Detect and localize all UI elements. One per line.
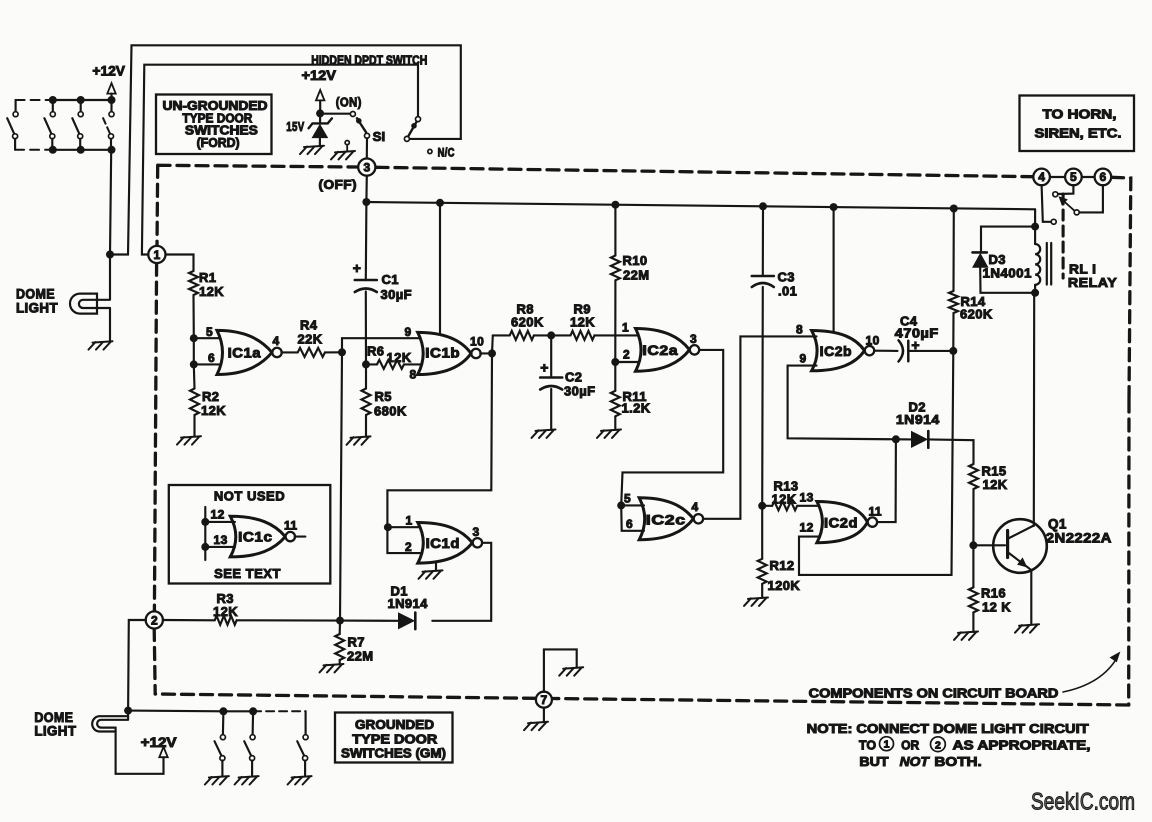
- svg-text:TO HORN,: TO HORN,: [1043, 107, 1117, 122]
- svg-text:IC2c: IC2c: [646, 513, 686, 528]
- wire - rail branch down to IC1b top: [439, 203, 441, 333]
- N/C contact: [428, 149, 432, 153]
- wire - to S1 ON contact: [320, 113, 351, 115]
- junction - R13/R12/C3: [758, 502, 766, 510]
- relay contact upper (node 5 wire): [1058, 185, 1073, 194]
- svg-text:SWITCHES (GM): SWITCHES (GM): [341, 747, 446, 761]
- wire - C4 node down to IC2d pin 12: [799, 351, 953, 575]
- svg-text:C3: C3: [778, 270, 795, 285]
- ground - below top dome light: [89, 341, 113, 349]
- svg-text:9: 9: [800, 352, 807, 366]
- ground - below R2: [177, 436, 201, 444]
- svg-text:+: +: [353, 260, 361, 276]
- door switch SW-C: [77, 96, 85, 104]
- svg-text:SIREN, ETC.: SIREN, ETC.: [1035, 126, 1122, 141]
- svg-text:10: 10: [470, 335, 484, 349]
- svg-text:2: 2: [935, 739, 941, 751]
- wire - IC1b out down to IC1d inputs: [387, 353, 492, 553]
- junction - R8/R9/C2: [547, 331, 555, 339]
- junction - IC1c pin 12: [201, 518, 209, 526]
- ground - below node 7: [524, 722, 548, 730]
- junction - IC2c pin 5: [617, 501, 625, 509]
- wire - between node 5 and 6: [1082, 176, 1095, 178]
- wire - dome light node to GM switches: [128, 710, 223, 713]
- NOR gate IC1c: [230, 516, 285, 557]
- svg-text:5: 5: [206, 325, 213, 339]
- junction - C1/R6/R5: [362, 360, 370, 368]
- svg-text:(OFF): (OFF): [319, 177, 358, 192]
- svg-text:13: 13: [800, 491, 814, 505]
- S1 common contact: [365, 133, 370, 138]
- wire - node 2 to R3: [163, 619, 215, 621]
- capacitor C2 30uF: [550, 335, 552, 377]
- node 6 circle: [1095, 169, 1112, 186]
- svg-text:12 K: 12 K: [982, 600, 1011, 615]
- svg-text:22K: 22K: [298, 332, 323, 347]
- svg-text:NOT USED: NOT USED: [214, 489, 285, 504]
- svg-text:22M: 22M: [623, 268, 650, 283]
- svg-text:IC2d: IC2d: [824, 516, 858, 531]
- svg-text:+12V: +12V: [141, 735, 177, 750]
- zener diode D4 15V: [319, 113, 321, 122]
- wire - IC1c output stub: [295, 536, 306, 538]
- svg-text:+12V: +12V: [302, 68, 336, 83]
- ground - below C2: [532, 430, 556, 438]
- wire - R4 to junction: [325, 351, 342, 353]
- svg-text:OR: OR: [901, 737, 920, 752]
- svg-text:2: 2: [151, 613, 158, 627]
- ground - below zener: [300, 146, 324, 154]
- resistor R1 12K: [189, 271, 198, 295]
- svg-text:C1: C1: [382, 272, 399, 287]
- svg-text:NOTE: CONNECT DOME LIGHT CIRCU: NOTE: CONNECT DOME LIGHT CIRCUIT: [807, 721, 1089, 736]
- svg-text:Q1: Q1: [1048, 517, 1067, 532]
- wire - IC2a output feedback to IC2c pin5: [621, 350, 723, 506]
- svg-text:30µF: 30µF: [564, 384, 596, 399]
- resistor R6 12K: [366, 363, 377, 365]
- diode D2 1N914: [896, 438, 912, 440]
- capacitor C3 .01: [762, 206, 764, 276]
- resistor R3 12K: [215, 616, 237, 625]
- svg-text:6: 6: [208, 351, 215, 365]
- junction - zener/S1 node: [316, 109, 324, 117]
- +12V supply arrow (top-left): [107, 83, 115, 93]
- svg-text:R2: R2: [202, 389, 219, 404]
- wire - Ford switch bottom rail: [53, 149, 112, 151]
- wire - dashed to third GM switch: [253, 710, 306, 712]
- svg-text:12: 12: [211, 508, 225, 522]
- door switch SW-A: [15, 100, 17, 112]
- svg-text:12K: 12K: [983, 477, 1008, 492]
- ground - below R12: [744, 598, 768, 606]
- resistor R10 22M: [614, 205, 616, 256]
- svg-text:3: 3: [473, 525, 480, 539]
- svg-text:1: 1: [154, 248, 161, 262]
- wire - IC2c input tie: [621, 505, 644, 530]
- svg-text:TYPE DOOR: TYPE DOOR: [352, 733, 437, 747]
- resistor R5 680K: [365, 364, 367, 388]
- resistor R9 12K: [551, 334, 570, 336]
- GM door switch 3: [305, 711, 307, 735]
- svg-text:15V: 15V: [286, 120, 304, 134]
- svg-text:R12: R12: [770, 558, 795, 573]
- svg-text:1.2K: 1.2K: [622, 401, 651, 416]
- svg-text:12K: 12K: [570, 315, 595, 330]
- wire - door switch column down to dome light: [110, 150, 111, 255]
- capacitor C4 470uF: [899, 340, 904, 361]
- relay core bars: [1046, 243, 1048, 285]
- svg-text:LIGHT: LIGHT: [16, 301, 58, 316]
- svg-text:6: 6: [1100, 170, 1107, 184]
- svg-text:1N4001: 1N4001: [983, 266, 1032, 281]
- junction - node 1 wire to door-switch column: [106, 251, 114, 259]
- wire - inner loop node 1 to DPDT upper contact: [142, 65, 418, 255]
- svg-text:IC2b: IC2b: [820, 344, 852, 359]
- junction - rail/R14: [950, 205, 958, 213]
- DPDT switch pole 2 lower contact: [404, 136, 409, 141]
- svg-text:6: 6: [626, 517, 633, 531]
- wire - IC1a output to R4: [282, 351, 298, 353]
- node 5 circle: [1065, 169, 1082, 186]
- svg-text:HIDDEN DPDT SWITCH: HIDDEN DPDT SWITCH: [311, 54, 427, 68]
- ground - below R5: [347, 436, 371, 444]
- svg-text:LIGHT: LIGHT: [34, 724, 76, 739]
- wire - IC1d pin1 into gate: [388, 526, 423, 528]
- ground - below R7: [320, 664, 344, 672]
- GM door switch 1: [219, 707, 227, 715]
- ground - right of node 7: [559, 667, 583, 675]
- wire - C4 to R14 junction: [908, 350, 953, 352]
- NOR gate IC2a: [636, 329, 690, 372]
- relay armature blade with arrow: [1063, 201, 1074, 211]
- svg-text:5: 5: [1070, 170, 1077, 184]
- svg-text:SEE TEXT: SEE TEXT: [214, 566, 281, 581]
- dashed circuit-board border left edge: [155, 165, 159, 246]
- node 2 circle: [146, 611, 163, 628]
- svg-text:+: +: [540, 360, 548, 376]
- svg-text:R4: R4: [300, 318, 318, 333]
- wire - pin2 into gate: [615, 361, 640, 363]
- svg-text:1: 1: [622, 321, 629, 335]
- wire - R3 to R7 junction: [237, 619, 340, 621]
- dashed circuit-board border right edge: [1112, 177, 1131, 400]
- svg-text:1N914: 1N914: [896, 412, 940, 427]
- resistor R12 120K: [761, 506, 763, 559]
- svg-text:1N914: 1N914: [388, 596, 429, 611]
- wire - Ford switch top rail (dashed part): [16, 99, 53, 101]
- svg-text:11: 11: [284, 519, 298, 533]
- svg-text:8: 8: [410, 368, 417, 382]
- door switch SW-D (dashed blade): [108, 96, 116, 104]
- svg-text:120K: 120K: [768, 578, 801, 593]
- junction - IC1c pin 13: [201, 543, 209, 551]
- callout box NOT USED / SEE TEXT: [169, 485, 330, 584]
- wire - bottom lamp to +12V arrow: [116, 728, 164, 774]
- junction - relay coil top: [1031, 223, 1039, 231]
- NOR gate IC2c: [639, 498, 693, 540]
- svg-text:12K: 12K: [213, 604, 238, 619]
- NOR gate IC2d: [817, 502, 868, 543]
- node 3 circle: [358, 159, 375, 176]
- svg-text:C2: C2: [565, 370, 582, 385]
- Q1 collector: [1008, 526, 1034, 539]
- GM door switch 2: [249, 707, 257, 715]
- wire - R1 to IC1a pin 5: [192, 295, 194, 338]
- wire - Ford switch top rail: [53, 99, 112, 101]
- dashed divider between relay coil and contacts: [1062, 194, 1065, 278]
- wire - node 7 lower ground stub: [543, 708, 545, 723]
- junction - IC1d pin 1: [384, 523, 392, 531]
- junction - Q1 base node: [969, 541, 977, 549]
- resistor R2 12K: [193, 364, 196, 388]
- junction - C4/R14/IC2d pin12 line: [949, 347, 957, 355]
- svg-text:IC1b: IC1b: [425, 346, 460, 361]
- wire - pin5 into gate: [621, 504, 644, 506]
- svg-text:680K: 680K: [374, 404, 407, 419]
- svg-text:.01: .01: [778, 284, 797, 299]
- wire - outer loop to DPDT lower contact: [110, 45, 461, 254]
- ground - below R16: [954, 632, 978, 640]
- Q1 emitter with arrow: [1008, 553, 1031, 570]
- transistor Q1 2N2222A: [993, 519, 1047, 573]
- svg-text:22M: 22M: [347, 649, 374, 664]
- dome light lamp (top): [70, 294, 97, 314]
- svg-text:COMPONENTS ON CIRCUIT BOARD: COMPONENTS ON CIRCUIT BOARD: [809, 686, 1059, 701]
- curved arrow to board edge: [1063, 657, 1118, 692]
- node 1 circle: [148, 246, 165, 263]
- wire - rail branch down to IC2b top: [833, 207, 835, 331]
- svg-text:2: 2: [623, 348, 630, 362]
- NOR gate IC1d: [418, 523, 473, 564]
- node 7 circle: [536, 692, 552, 708]
- resistor R8 620K: [493, 334, 510, 336]
- junction - IC1a pin6: [190, 360, 198, 368]
- wire - R6 to IC1b pin 8: [404, 363, 423, 365]
- S1 blade: [357, 118, 366, 132]
- resistor R14 620K: [952, 209, 954, 292]
- node 4 circle: [1033, 169, 1050, 186]
- wire - IC2d output up to D2 anode: [877, 439, 896, 522]
- diode D3 1N4001 loop wires: [981, 227, 1035, 252]
- resistor R16 12K: [972, 545, 974, 587]
- svg-text:IC1d: IC1d: [426, 536, 460, 551]
- junction - IC2a pin 2: [611, 358, 619, 366]
- svg-text:620K: 620K: [960, 307, 993, 322]
- ground - below Q1 emitter: [1015, 624, 1039, 632]
- svg-text:9: 9: [405, 325, 412, 339]
- dome light lamp (bottom): [127, 711, 129, 720]
- wire - IC1b output to junction: [480, 352, 492, 354]
- resistor R15 12K: [969, 464, 978, 489]
- svg-text:IC1a: IC1a: [228, 346, 261, 361]
- wire - up to R8: [491, 335, 494, 353]
- svg-text:4: 4: [273, 334, 280, 348]
- svg-text:DOME: DOME: [16, 287, 55, 302]
- diode D3 1N4001: [973, 251, 987, 254]
- svg-text:IC2a: IC2a: [642, 343, 678, 358]
- wire - node 7 upper ground stub: [544, 649, 577, 691]
- dashed circuit-board border top edge: [158, 165, 358, 167]
- svg-text:4: 4: [1038, 170, 1045, 184]
- svg-text:3: 3: [690, 332, 697, 346]
- wire - pin6 into gate: [194, 363, 222, 365]
- svg-text:TO: TO: [859, 737, 876, 752]
- svg-text:(ON): (ON): [336, 95, 362, 110]
- wire - junction to D1: [340, 620, 399, 622]
- svg-text:R16: R16: [981, 586, 1006, 601]
- wire - R8 to C2 junction: [534, 334, 551, 336]
- svg-text:NOT: NOT: [900, 754, 930, 769]
- NOR gate IC1b: [418, 332, 471, 374]
- wire - IC1a input tie: [193, 338, 195, 364]
- junction - rail/C1: [362, 198, 370, 206]
- NOR gate IC2b: [812, 331, 865, 371]
- DPDT switch pole 2 blade: [408, 122, 416, 136]
- svg-text:(FORD): (FORD): [197, 136, 240, 150]
- svg-text:SI: SI: [373, 129, 386, 144]
- wire - main top rail: [366, 202, 1035, 209]
- door switch SW-B: [49, 96, 57, 104]
- wire - IC1c input tie line: [204, 507, 206, 560]
- S1 ON contact: [350, 112, 355, 117]
- callout box GROUNDED TYPE DOOR SWITCHES (GM): [335, 713, 453, 763]
- svg-text:3: 3: [363, 160, 370, 174]
- svg-text:R10: R10: [623, 253, 648, 268]
- svg-text:10: 10: [866, 334, 880, 348]
- svg-text:7: 7: [541, 693, 548, 707]
- capacitor C1 30uF: [365, 202, 368, 280]
- wire - pin12 into gate: [205, 521, 235, 523]
- wire - node 1 to R1: [166, 255, 194, 272]
- wire - between node 4 and 5: [1050, 176, 1065, 178]
- svg-text:13: 13: [214, 533, 228, 547]
- junction - relay coil bottom: [1031, 289, 1039, 297]
- diode D1 1N914: [399, 613, 415, 629]
- wire - Ford switch bottom rail (dashed part): [15, 149, 53, 151]
- wire - R15 to Q1 base node: [972, 489, 974, 545]
- junction - IC1b out: [488, 349, 496, 357]
- junction - bottom dome light node: [124, 707, 132, 715]
- junction - rail/IC2b top: [830, 203, 838, 211]
- svg-text:2N2222A: 2N2222A: [1046, 531, 1112, 546]
- svg-text:R5: R5: [375, 389, 392, 404]
- wire - pin5 into gate: [194, 337, 222, 339]
- ground - below R11: [597, 430, 621, 438]
- wire - dome light to ground: [109, 308, 111, 342]
- svg-text:30µF: 30µF: [381, 287, 413, 302]
- svg-text:2: 2: [405, 540, 412, 554]
- junction - R3/R7/D1: [336, 617, 344, 625]
- dashed circuit-board border bottom edge: [552, 699, 1129, 706]
- wire - pin13 into gate: [205, 546, 235, 548]
- wire - D2 cathode to R15: [928, 439, 973, 464]
- junction - rail/IC1b top: [436, 199, 444, 207]
- svg-text:BOTH.: BOTH.: [934, 754, 981, 769]
- svg-text:1: 1: [406, 514, 413, 528]
- wire - node 2 loop to bottom dome light: [128, 620, 146, 711]
- junction - IC1a pin5: [190, 334, 198, 342]
- svg-text:470µF: 470µF: [895, 326, 939, 341]
- svg-text:R7: R7: [348, 635, 365, 650]
- junction - D2 anode / IC2d out: [892, 435, 900, 443]
- wire - rail down to relay coil: [1034, 209, 1036, 226]
- relay contact lower (node 6 wire): [1080, 185, 1103, 212]
- resistor R13 12K: [762, 505, 772, 507]
- S1 OFF contact to ground: [345, 141, 349, 145]
- svg-text:12K: 12K: [201, 403, 226, 418]
- wire - IC2c out up to IC2b pin 8: [703, 336, 816, 518]
- svg-text:12K: 12K: [772, 492, 797, 507]
- svg-text:5: 5: [624, 492, 631, 506]
- junction - rail/C3: [759, 202, 767, 210]
- svg-text:R6: R6: [367, 343, 384, 358]
- wire - S1 to node 3: [366, 138, 368, 158]
- svg-text:12K: 12K: [199, 284, 224, 299]
- wire - junction up to IC1b pin 9: [342, 338, 423, 352]
- resistor R4 22K: [298, 348, 325, 357]
- svg-text:GROUNDED: GROUNDED: [355, 718, 434, 732]
- svg-text:1: 1: [884, 739, 890, 751]
- resistor R7 22M: [339, 621, 341, 634]
- svg-text:IC1c: IC1c: [238, 530, 272, 545]
- svg-text:620K: 620K: [511, 315, 544, 330]
- svg-text:12K: 12K: [387, 350, 412, 365]
- NOR gate IC1a: [217, 330, 272, 374]
- svg-text:RELAY: RELAY: [1068, 275, 1117, 290]
- wire - IC2b out to C4: [874, 350, 897, 352]
- wire - IC1d output down to D1: [432, 543, 491, 621]
- wire - junction down toward R3/D1 node: [340, 352, 342, 620]
- wire - base node to Q1 base: [973, 544, 1005, 546]
- relay RL1 coil: [1034, 227, 1036, 244]
- ground - below IC1d: [435, 562, 437, 571]
- wire - node 3 to rail: [365, 176, 368, 202]
- relay contact common (node 4 wire): [1042, 185, 1051, 221]
- junction - R4/IC1b pin9/IC1d column: [338, 348, 346, 356]
- svg-text:R1: R1: [199, 270, 216, 285]
- DPDT switch pole 2 upper contact: [416, 117, 421, 122]
- wire - R13 to IC2d pin 13: [797, 505, 821, 507]
- wire - IC2b pin9 loop to D2 anode: [788, 366, 896, 440]
- svg-text:AS APPROPRIATE,: AS APPROPRIATE,: [953, 738, 1091, 753]
- svg-text:BUT: BUT: [859, 754, 888, 769]
- +12V supply arrow (bottom): [159, 747, 167, 757]
- svg-text:SeekIC.com: SeekIC.com: [1031, 789, 1135, 816]
- svg-text:4: 4: [692, 500, 699, 514]
- callout box TO HORN, SIREN, ETC.: [1020, 96, 1135, 152]
- svg-text:12: 12: [800, 521, 814, 535]
- svg-text:11: 11: [869, 505, 883, 519]
- junction - rail/R10: [611, 201, 619, 209]
- svg-text:8: 8: [796, 323, 803, 337]
- wire - C3 down to R13/R12 node: [761, 287, 764, 506]
- svg-text:+12V: +12V: [92, 64, 125, 79]
- resistor R11 1.2K: [614, 362, 616, 391]
- callout box UN-GROUNDED TYPE DOOR SWITCHES (FORD): [156, 95, 272, 155]
- wire - R10 to IC2a pin2 junction: [614, 280, 616, 362]
- wire - R9 to IC2a pin 1: [595, 334, 641, 336]
- svg-text:N/C: N/C: [438, 148, 455, 160]
